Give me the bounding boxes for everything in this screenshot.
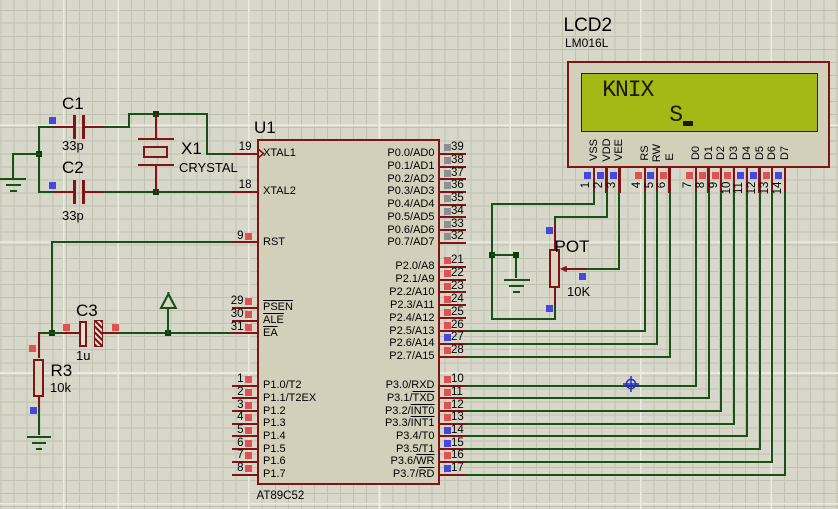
pin 18 XTAL2 (left) [232,191,258,193]
left vertical wire C1-C2 [38,126,40,193]
LCD text line1 [602,79,653,102]
pin 7 P1.6 (left) [232,461,258,463]
pin 26 P2.5/A13 (right) [439,330,466,332]
pin 15 P3.5/T1 (right) [439,448,466,450]
node squares R3 [29,345,36,352]
wire C3 to EA [118,332,233,334]
node square C2 [49,182,56,189]
node squares POT [546,227,553,234]
junction crystal bottom [153,189,159,195]
pin 29 PSEN (left) [232,307,258,309]
LCD pin 5 RW [651,118,663,188]
wire chip to LCD x=669.5 [465,356,671,358]
LCD pin 4 RS [639,118,651,188]
pin 16 P3.6/WR (right) [439,461,466,463]
pin 38 P0.1/AD1 (right) [439,166,466,168]
wire POT bottom [491,318,556,320]
wire chip to LCD x=772.3 [465,461,773,463]
pin 33 P0.6/AD6 (right) [439,229,466,231]
pin 10 P3.0/RXD (right) [439,385,466,387]
pin 17 P3.7/RD (right) [439,474,466,476]
power symbol (up arrow) [167,308,169,334]
wire VEE net: LCD pin3 to POT wiper [618,192,620,270]
LCD pin 14 D7 [779,118,791,188]
LCD pin 6 E [664,122,676,192]
wire down to XTAL1 [206,113,208,155]
capacitor C2 [38,191,53,193]
pin 3 P1.2 (left) [232,410,258,412]
wire chip to LCD x=644.8 [465,330,646,332]
wire chip to LCD x=708.6 [465,397,710,399]
pin 6 P1.5 (left) [232,448,258,450]
junction gnd branch end [513,252,519,258]
wire chip to LCD x=695.9 [465,385,697,387]
node squares C3 [63,324,70,331]
MCU U1 AT89C52 [257,139,440,486]
pin 27 P2.6/A14 (right) [439,343,466,345]
pin 34 P0.5/AD5 (right) [439,216,466,218]
pin 22 P2.1/A9 (right) [439,279,466,281]
LCD pin 12 D5 [754,118,766,188]
junction power arrow [165,330,171,336]
pin 37 P0.2/AD2 (right) [439,178,466,180]
pin 2 P1.1/T2EX (left) [232,397,258,399]
wire C2 to XTAL2 [104,191,233,193]
LCD pin 13 D6 [766,118,778,188]
junction ground branch [36,151,42,157]
capacitor C3 (polarized) [52,332,62,334]
LCD pin 11 D4 [741,118,753,188]
wire gnd branch [491,254,517,256]
wire chip to LCD x=721.3 [465,410,722,412]
LCD pin 10 D3 [728,118,740,188]
pin 13 P3.3/INT1 (right) [439,423,466,425]
pin 1 P1.0/T2 (left) [232,385,258,387]
pin 8 P1.7 (left) [232,474,258,476]
pin 5 P1.4 (left) [232,435,258,437]
resistor R3 [38,332,53,334]
wire chip to LCD x=734.1 [465,423,735,425]
junction crystal top [153,111,159,117]
LCD text line2 cursor [669,104,683,127]
LCD pin 8 D1 [703,118,715,188]
wire VDD net: LCD pin2 to POT top [606,192,608,218]
pin 30 ALE (left) [232,320,258,322]
node square C1 [49,117,56,124]
LCD screen [581,73,818,132]
pin 11 P3.1/TXD (right) [439,397,466,399]
LCD pin 1 VSS [588,115,600,185]
pin 24 P2.3/A11 (right) [439,304,466,306]
pin 25 P2.4/A12 (right) [439,317,466,319]
pin 23 P2.2/A10 (right) [439,291,466,293]
ground symbol POT [504,279,530,281]
pin 9 RST (left) [232,241,258,243]
pin 31 EA (left) [232,332,258,334]
LCD pin 9 D2 [715,118,727,188]
wire chip to LCD x=785.0 [465,474,786,476]
wire chip to LCD x=746.8 [465,435,748,437]
POT wiper arrow [564,268,586,270]
LCD LCD2 body [567,61,830,168]
origin marker crosshair [622,375,640,393]
pin 19 XTAL1 (left) [232,153,258,155]
pin 12 P3.2/INT0 (right) [439,410,466,412]
LCD pin 7 D0 [690,118,702,188]
pin 28 P2.7/A15 (right) [439,356,466,358]
wire VSS net: LCD pin1 down-left to ground/pot bottom [593,192,595,205]
potentiometer POT [554,224,556,249]
pin 14 P3.4/T0 (right) [439,435,466,437]
pin 21 P2.0/A8 (right) [439,266,466,268]
junction RST/C3/R3 [49,330,55,336]
junction VSS/gnd [489,252,495,258]
pin 39 P0.0/AD0 (right) [439,153,466,155]
pin 32 P0.7/AD7 (right) [439,242,466,244]
ground symbol top-left [0,178,26,180]
wire chip to LCD x=759.5 [465,448,761,450]
LCD pin 3 VEE [613,115,625,185]
wire C1 left [38,126,53,128]
wire chip to LCD x=657.1 [465,343,658,345]
wire RST [51,241,233,243]
crystal X1 [155,114,157,140]
pin 35 P0.4/AD4 (right) [439,204,466,206]
capacitor C1 [53,126,74,128]
LCD pin 2 VDD [601,115,613,185]
pin 36 P0.3/AD3 (right) [439,191,466,193]
LCD cursor block [683,121,692,126]
wire to ground [12,153,39,155]
pin 4 P1.3 (left) [232,423,258,425]
ground symbol R3 [27,436,51,438]
wire C1 to crystal top [104,126,131,128]
